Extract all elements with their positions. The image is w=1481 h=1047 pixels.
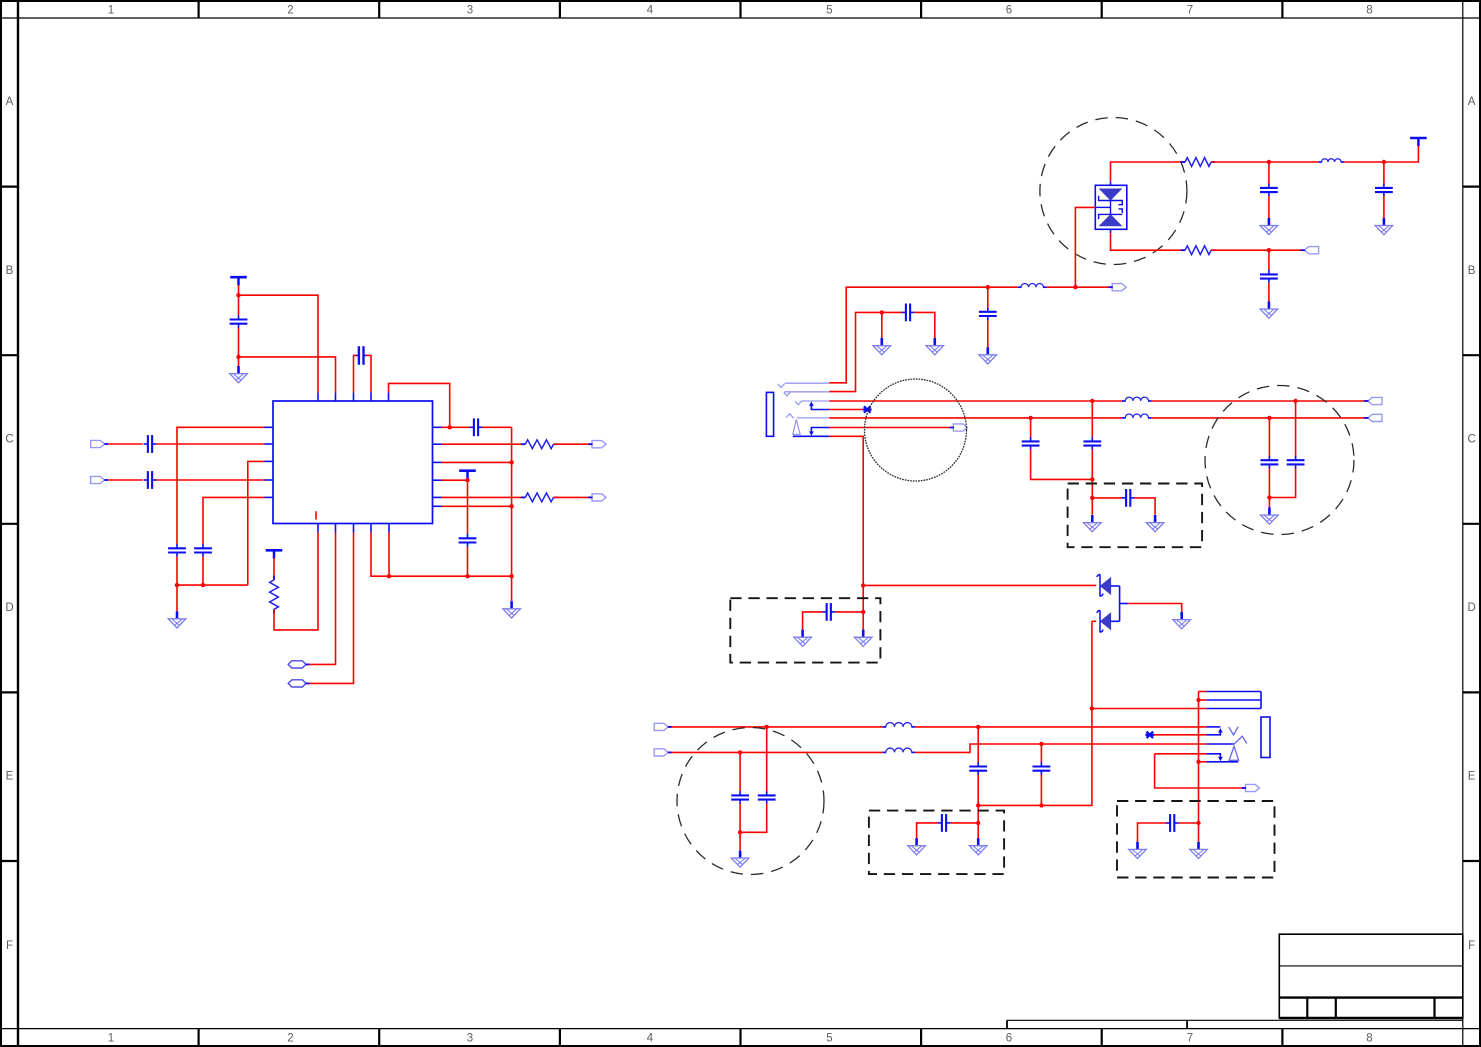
audio jack J1 body <box>766 392 773 436</box>
power symbol VCC1 <box>230 277 247 285</box>
svg-text:E: E <box>1468 771 1476 783</box>
wire varactor tap <box>1075 207 1095 287</box>
svg-text:2: 2 <box>287 1033 293 1045</box>
junction <box>509 460 513 464</box>
J2 contact marks <box>1229 727 1247 761</box>
ground GND20 <box>854 630 872 647</box>
wire <box>273 558 275 580</box>
junction <box>861 610 865 614</box>
wire <box>248 461 265 585</box>
port IN1 <box>91 440 105 447</box>
capacitor C24 <box>938 814 951 832</box>
wire <box>1199 691 1207 693</box>
wire <box>442 505 512 507</box>
capacitor C21 <box>731 791 749 804</box>
ground GND13 <box>1173 612 1191 629</box>
wire <box>442 479 468 481</box>
wire <box>835 611 863 613</box>
ground GND14 <box>731 850 749 867</box>
junction <box>1039 803 1043 807</box>
wire line B <box>829 417 1122 419</box>
wire <box>1040 744 1042 762</box>
wire <box>1268 162 1270 184</box>
inductor L1 <box>1018 283 1047 287</box>
wire <box>977 805 979 823</box>
wire <box>1047 286 1113 288</box>
junction <box>201 583 205 587</box>
wire <box>306 533 354 684</box>
title block <box>1007 934 1463 1028</box>
svg-text:2: 2 <box>287 5 293 17</box>
wire <box>177 427 265 544</box>
port IN2 <box>91 476 105 483</box>
wire <box>1383 196 1385 218</box>
wire <box>1111 233 1186 250</box>
capacitor C12 <box>979 308 997 321</box>
wire <box>829 312 882 391</box>
wire <box>862 612 864 630</box>
ground GND5 <box>1375 218 1393 235</box>
junction <box>738 750 742 754</box>
svg-text:5: 5 <box>826 1033 832 1045</box>
ground GND9 <box>979 347 997 364</box>
wire <box>239 357 336 392</box>
junction <box>1028 416 1032 420</box>
junction <box>1267 495 1271 499</box>
U1 pin 1 marker <box>315 511 317 519</box>
wire <box>829 409 864 411</box>
wire <box>1030 418 1032 438</box>
wire rail <box>511 427 513 601</box>
wire bus <box>177 584 248 586</box>
svg-text:5: 5 <box>826 5 832 17</box>
junction <box>465 574 469 578</box>
dashed box 1 <box>1068 484 1203 548</box>
wire <box>988 286 1018 288</box>
wire <box>1268 283 1270 302</box>
svg-text:B: B <box>1468 265 1476 277</box>
inductor L4 <box>1122 414 1152 418</box>
wire <box>1178 822 1198 824</box>
port RFOUT2 <box>1368 414 1382 421</box>
wire <box>1040 775 1042 806</box>
wire <box>442 461 512 463</box>
dashed box 3 <box>869 811 1004 875</box>
port RF1 <box>1112 284 1126 291</box>
ground GND10 <box>1146 515 1164 532</box>
wire <box>1383 162 1385 184</box>
wire <box>1091 450 1093 498</box>
junction <box>1267 416 1271 420</box>
wire <box>554 496 593 498</box>
wire <box>1154 734 1206 736</box>
junction <box>880 310 884 314</box>
junction <box>1267 160 1271 164</box>
junction <box>976 803 980 807</box>
wire J2 rail <box>1198 692 1200 824</box>
wire <box>881 312 883 338</box>
wire <box>1128 604 1181 613</box>
op-amp U1 (main IC) <box>273 401 433 524</box>
junction <box>175 583 179 587</box>
svg-text:A: A <box>1468 96 1476 108</box>
wire <box>739 804 741 833</box>
capacitor C15 <box>1022 437 1040 450</box>
diode D2 <box>1097 574 1120 596</box>
wire <box>238 295 240 315</box>
svg-text:A: A <box>6 96 14 108</box>
svg-text:6: 6 <box>1006 1033 1012 1045</box>
junction <box>509 574 513 578</box>
svg-text:B: B <box>6 265 14 277</box>
ground GND19 <box>794 630 812 647</box>
svg-text:7: 7 <box>1187 5 1193 17</box>
wire <box>1138 823 1167 842</box>
port DET <box>953 424 967 431</box>
ground GND17 <box>1129 842 1147 859</box>
port IN3 <box>654 723 668 730</box>
wire <box>917 823 938 838</box>
wire <box>1268 418 1270 456</box>
wire <box>1092 620 1096 622</box>
wire <box>388 533 390 577</box>
dashed box 4 <box>1117 801 1275 878</box>
inductor L2 <box>1318 159 1344 162</box>
svg-text:4: 4 <box>647 5 654 17</box>
wire <box>914 312 935 338</box>
svg-text:8: 8 <box>1366 5 1372 17</box>
wire <box>467 547 469 577</box>
port MIC <box>1246 784 1260 791</box>
wire <box>442 426 450 428</box>
wire <box>740 804 767 833</box>
ground GND15 <box>908 838 926 855</box>
wire <box>803 612 823 630</box>
wire <box>203 497 265 544</box>
wire <box>1199 761 1207 763</box>
svg-text:8: 8 <box>1366 1033 1372 1045</box>
dashed box 2 <box>730 598 880 662</box>
capacitor C7 <box>470 418 483 436</box>
wire <box>1155 754 1246 788</box>
capacitor C16 <box>1122 489 1135 507</box>
diode D3 <box>1097 610 1120 632</box>
power symbol VCC4 <box>1410 138 1427 146</box>
wire <box>1211 249 1304 251</box>
svg-text:F: F <box>1468 940 1475 952</box>
wire <box>739 832 741 850</box>
port OUT1 <box>592 441 606 448</box>
capacitor C20 <box>758 791 776 804</box>
svg-text:C: C <box>5 434 13 446</box>
capacitor C5 <box>168 544 186 557</box>
wire to D2 <box>863 584 1096 586</box>
junction <box>509 504 513 508</box>
wire <box>238 328 240 357</box>
wire <box>1344 146 1418 162</box>
wire <box>1198 823 1200 842</box>
wire <box>950 822 978 824</box>
svg-text:3: 3 <box>467 5 473 17</box>
inductor L6 <box>883 748 915 752</box>
junction <box>387 574 391 578</box>
wire <box>882 311 902 313</box>
resistor R1 <box>521 440 558 449</box>
resistor R2 <box>521 493 558 502</box>
power symbol VCC2 <box>266 550 283 558</box>
wire <box>467 480 469 534</box>
svg-text:D: D <box>1467 602 1475 614</box>
wire <box>1091 621 1093 708</box>
port OUT-B <box>288 680 306 687</box>
junction <box>448 425 452 429</box>
junction <box>1039 742 1043 746</box>
wire <box>1152 400 1368 402</box>
wire <box>1091 401 1093 438</box>
capacitor C1 <box>230 315 248 328</box>
resistor R4 <box>1181 246 1216 255</box>
junction <box>1090 496 1094 500</box>
wire <box>450 426 470 428</box>
J1 pin lines <box>778 383 829 434</box>
dashed highlight circle 1 <box>1040 118 1187 265</box>
wire <box>1268 469 1270 498</box>
wire <box>987 320 989 347</box>
wire <box>829 287 988 383</box>
junction <box>1293 399 1297 403</box>
ground GND8 <box>873 338 891 355</box>
capacitor C9 <box>1260 184 1278 197</box>
wire <box>1092 497 1122 499</box>
ground GND6 <box>1260 301 1278 318</box>
wire <box>105 443 143 445</box>
wire <box>1031 450 1093 480</box>
wire <box>1269 469 1295 498</box>
capacitor C17 <box>1261 456 1279 469</box>
wire <box>1134 498 1155 515</box>
junction <box>236 355 240 359</box>
capacitor C8 <box>459 534 477 547</box>
wire line D <box>668 751 882 753</box>
capacitor C23 <box>1033 762 1051 775</box>
ground GND4 <box>1260 218 1278 235</box>
wire <box>105 479 143 481</box>
resistor R5 <box>270 576 279 614</box>
U1 pin stubs <box>265 392 442 532</box>
wire <box>202 557 204 585</box>
wire <box>442 496 526 498</box>
svg-text:4: 4 <box>647 1033 654 1045</box>
wire <box>1091 498 1093 515</box>
dashed highlight circle 3 <box>677 728 824 875</box>
capacitor C2 <box>356 346 366 365</box>
highlight circle (solid) <box>865 379 967 481</box>
junction <box>1196 698 1200 702</box>
wire <box>1268 498 1270 508</box>
wire <box>389 383 450 425</box>
wire <box>306 533 336 665</box>
junction <box>465 478 469 482</box>
power symbol VCC3 <box>459 471 476 479</box>
junction <box>1090 706 1094 710</box>
wire to J2 pin3 <box>1092 708 1207 710</box>
wire <box>1152 417 1368 419</box>
junction <box>976 821 980 825</box>
wire <box>739 752 741 791</box>
junction <box>1073 285 1077 289</box>
ground GND1 <box>230 366 248 383</box>
wire <box>1211 161 1318 163</box>
wire <box>239 295 319 392</box>
junction <box>1267 248 1271 252</box>
capacitor C3 <box>144 435 157 453</box>
capacitor C11 <box>1260 270 1278 283</box>
wire <box>482 426 511 428</box>
wire <box>1111 162 1186 181</box>
wire <box>977 727 979 763</box>
svg-text:1: 1 <box>108 1033 114 1045</box>
capacitor C4 <box>144 471 157 489</box>
capacitor C22 <box>969 762 987 775</box>
wire <box>442 443 526 445</box>
ground GND11 <box>1084 515 1102 532</box>
junction <box>1090 399 1094 403</box>
junction <box>1090 477 1094 481</box>
resistor R3 <box>1181 158 1216 167</box>
dashed highlight circle 2 <box>1205 386 1354 535</box>
wire <box>862 585 864 612</box>
junction <box>1196 821 1200 825</box>
ground GND12 <box>1261 507 1279 524</box>
ground GND7 <box>926 338 944 355</box>
wire <box>829 427 953 429</box>
wire <box>829 436 863 585</box>
capacitor C13 <box>902 304 915 322</box>
no-connect X <box>1145 732 1154 738</box>
wire <box>766 727 768 791</box>
dual varactor diode D1 <box>1095 181 1127 233</box>
audio jack J2 body <box>1261 717 1270 758</box>
capacitor C25 <box>1166 814 1179 832</box>
junction <box>861 583 865 587</box>
junction <box>1382 160 1386 164</box>
wire <box>1268 250 1270 271</box>
wire <box>978 709 1092 806</box>
wire <box>987 287 989 308</box>
svg-text:C: C <box>1467 434 1475 446</box>
junction <box>986 285 990 289</box>
wire <box>156 443 264 445</box>
ground GND18 <box>1190 842 1208 859</box>
junction <box>236 293 240 297</box>
wire <box>554 443 593 445</box>
svg-text:6: 6 <box>1006 5 1012 17</box>
J1 switch contacts <box>793 406 830 437</box>
svg-text:1: 1 <box>108 5 114 17</box>
capacitor C6 <box>194 544 212 557</box>
wire <box>176 585 178 611</box>
wire <box>176 557 178 585</box>
svg-text:D: D <box>5 602 13 614</box>
port IN4 <box>654 749 668 756</box>
capacitor C14 <box>1083 437 1101 450</box>
wire <box>238 357 240 366</box>
ground GND16 <box>969 838 987 855</box>
wire <box>1268 196 1270 218</box>
port OUT-A <box>288 661 306 668</box>
inductor L5 <box>883 723 915 727</box>
wire <box>366 355 371 392</box>
svg-text:7: 7 <box>1187 1033 1193 1045</box>
wire <box>977 823 979 838</box>
junction <box>738 830 742 834</box>
no-connect X <box>863 406 872 412</box>
wire <box>274 533 318 630</box>
port OUT2 <box>592 494 606 501</box>
ground GND3 <box>503 601 521 618</box>
capacitor C10 <box>1375 184 1393 197</box>
svg-text:E: E <box>6 771 14 783</box>
inductor L3 <box>1122 397 1152 401</box>
port lead stubs <box>104 250 1368 788</box>
wire <box>371 533 512 577</box>
capacitor C18 <box>1287 456 1305 469</box>
wire <box>915 726 1206 728</box>
wire <box>156 479 264 481</box>
junction <box>1196 760 1200 764</box>
wire <box>977 775 979 806</box>
J2 pin comb <box>1206 692 1261 762</box>
wire <box>238 285 240 295</box>
wire line C <box>668 726 882 728</box>
D2/D3 common wire <box>1119 586 1121 621</box>
svg-text:3: 3 <box>467 1033 473 1045</box>
junction <box>765 725 769 729</box>
wire <box>1295 401 1297 456</box>
wire line A <box>829 400 1122 402</box>
capacitor C19 <box>822 603 835 621</box>
ground GND2 <box>168 611 186 628</box>
wire <box>915 744 1206 752</box>
junction <box>976 725 980 729</box>
wire <box>1155 753 1207 755</box>
port ANT <box>1304 247 1318 254</box>
svg-text:F: F <box>6 940 13 952</box>
wire <box>1199 699 1207 701</box>
port RFOUT1 <box>1368 397 1382 404</box>
wire <box>354 355 357 392</box>
